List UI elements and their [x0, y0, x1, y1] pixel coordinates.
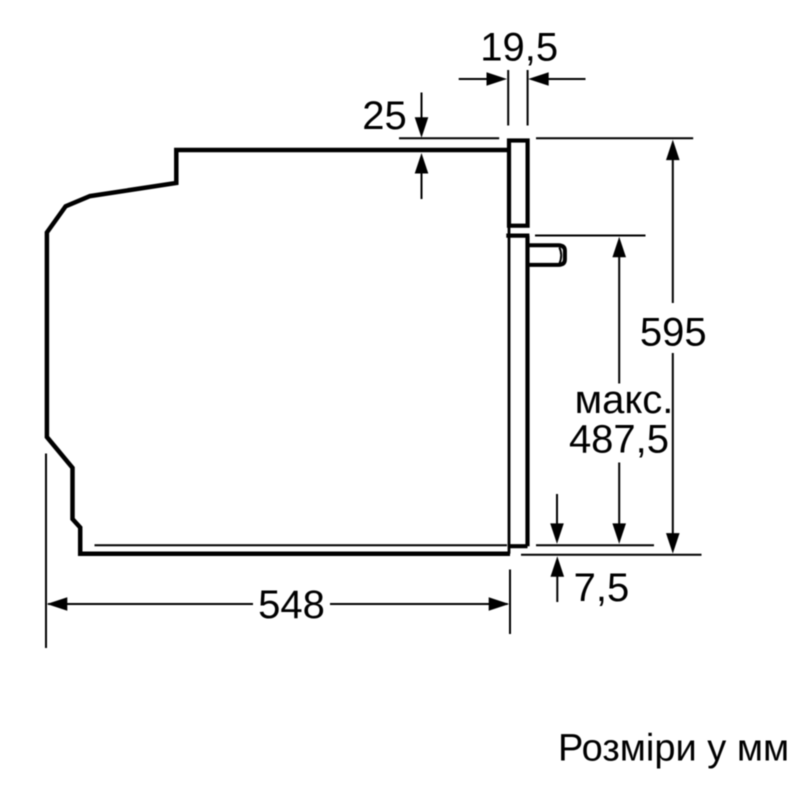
dim 595 bottom arrowhead: [666, 533, 680, 554]
extension line door-top level right: [536, 137, 693, 139]
dim 487.5 bottom arrowhead: [612, 523, 626, 544]
svg-text:7,5: 7,5: [574, 566, 630, 610]
handle end inner arc: [559, 247, 561, 263]
dim 19.5 left stem: [459, 78, 492, 80]
dim 7.5 up arrowhead: [551, 556, 565, 577]
svg-text:548: 548: [258, 583, 325, 627]
dim 548 stem: [48, 603, 508, 605]
dim 487.5 top arrowhead: [612, 237, 626, 257]
svg-text:25: 25: [362, 94, 407, 138]
svg-text:19,5: 19,5: [480, 26, 558, 70]
dim 25 up arrowhead: [415, 153, 429, 174]
dim 548 left arrowhead: [47, 597, 68, 611]
lower door right edge: [525, 236, 529, 547]
control panel (upper door section): [509, 141, 528, 226]
extension line 548 left: [45, 454, 47, 649]
door bottom edge: [509, 544, 528, 548]
dim 487.5 stem: [618, 249, 620, 530]
label mask 548: [253, 585, 330, 623]
dim 25 lower stem: [421, 168, 423, 199]
dim 595 stem: [672, 152, 674, 541]
interior bottom line right: [536, 544, 654, 546]
door front vertical line: [508, 141, 511, 554]
extension line door-top level left: [399, 137, 499, 139]
dim 25 upper stem: [421, 93, 423, 126]
svg-text:595: 595: [640, 310, 707, 354]
extension line handle level: [535, 235, 646, 237]
oven body outline: [47, 150, 510, 554]
extension line 19.5 right: [527, 70, 529, 126]
svg-text:Розміри у мм: Розміри у мм: [558, 728, 789, 770]
dim 7.5 lower stem: [556, 573, 558, 602]
svg-text:487,5: 487,5: [569, 418, 669, 462]
label mask 487.5: [566, 384, 669, 463]
dim 19.5 right stem: [545, 78, 586, 80]
dim 25 down arrowhead: [415, 117, 429, 138]
dim 548 right arrowhead: [489, 597, 510, 611]
dim 19.5 right arrowhead: [528, 72, 549, 86]
base level line: [521, 554, 702, 556]
dim 7.5 upper stem: [556, 494, 558, 530]
dim 19.5 left arrowhead: [487, 72, 508, 86]
extension line 548 right: [509, 570, 511, 635]
extension line 19.5 left: [507, 70, 509, 126]
door handle: [529, 245, 565, 265]
svg-text:макс.: макс.: [575, 378, 674, 422]
interior bottom line left: [95, 544, 508, 546]
dim 7.5 down arrowhead: [550, 523, 564, 544]
lower door top edge: [506, 234, 529, 238]
label mask 595: [640, 303, 707, 353]
dim 595 top arrowhead: [666, 140, 680, 161]
